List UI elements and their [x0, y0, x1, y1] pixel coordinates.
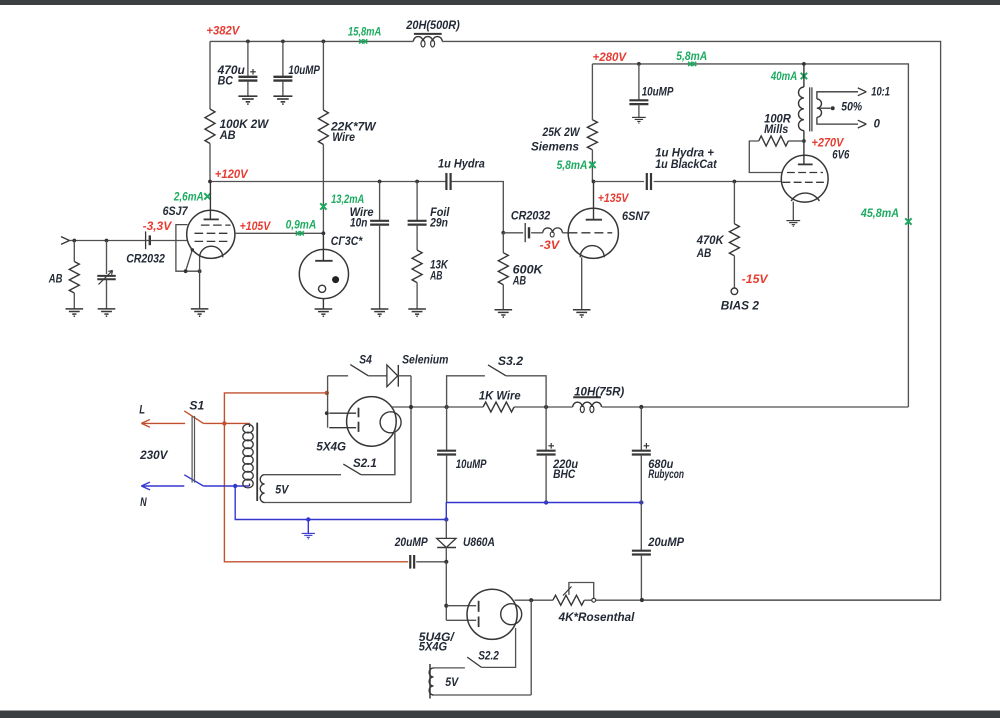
svg-text:BIAS 2: BIAS 2: [721, 301, 760, 313]
wire mains N: [141, 482, 184, 490]
current 15,8mA: [348, 26, 381, 43]
battery CR2032 input bias: [126, 231, 165, 265]
svg-text:5V: 5V: [445, 677, 459, 689]
current 45,8mA: [860, 208, 912, 225]
node blue gnd stem: [306, 517, 310, 521]
svg-text:-15V: -15V: [742, 274, 769, 286]
capacitor 220u BHC: [537, 407, 579, 502]
capacitor 10uMP filter1: [273, 41, 320, 96]
bottom border bar: [0, 711, 1000, 718]
resistor 100K 2W AB: [205, 41, 269, 181]
svg-text:5X4G: 5X4G: [316, 442, 346, 454]
switch S3.2: [447, 356, 546, 407]
node 280V-10uMP: [637, 62, 641, 66]
switch S1 pole L: [184, 411, 203, 424]
svg-text:10:1: 10:1: [871, 86, 890, 98]
wire 600K to 6SN7 grid: [503, 232, 568, 234]
capacitor 10uMP psu: [437, 407, 487, 502]
svg-text:40mA: 40mA: [770, 71, 797, 83]
svg-text:Wire: Wire: [332, 132, 355, 144]
node rectifier out: [529, 598, 533, 602]
wire 5U4G output: [515, 599, 553, 601]
wire mains L: [141, 420, 185, 428]
input arrow: [61, 237, 70, 241]
svg-text:Rubycon: Rubycon: [648, 469, 684, 481]
svg-text:10n: 10n: [350, 218, 367, 230]
svg-text:СГ3С*: СГ3С*: [331, 236, 363, 248]
current 5,8mA top: [676, 51, 707, 66]
node input-varcap: [105, 239, 109, 243]
tube 5X4G rectifier: [329, 397, 401, 447]
node blue 10uMP: [444, 517, 448, 521]
svg-text:+280V: +280V: [593, 52, 628, 64]
wire +120V rail: [210, 182, 503, 233]
ground СГ3С: [315, 309, 333, 316]
ground 6SN7 cathode: [573, 310, 591, 317]
wire U860A to 5U4G: [445, 562, 447, 621]
node 280V-OPT: [802, 62, 806, 66]
current 13,2mA: [320, 194, 364, 210]
svg-text:5,8mA: 5,8mA: [557, 160, 588, 172]
node 6SJ7 cath2: [198, 269, 202, 273]
wire 6SN7 cathode: [581, 257, 583, 309]
node N ground tap: [233, 484, 237, 488]
svg-text:10uMP: 10uMP: [456, 459, 487, 471]
wire 5X4G anode tie: [327, 376, 329, 428]
node +270V: [802, 139, 806, 143]
svg-text:1K Wire: 1K Wire: [479, 391, 521, 403]
terminal BIAS 2: [731, 288, 738, 295]
svg-text:230V: 230V: [139, 450, 169, 462]
tube 6SN7: [568, 182, 618, 259]
capacitor 20uMP right: [632, 503, 685, 601]
svg-text:10uMP: 10uMP: [642, 86, 674, 98]
ground input AB: [66, 309, 84, 316]
node red to 5X4G: [325, 391, 329, 395]
node 382V-470u: [246, 40, 250, 44]
switch S2.2: [434, 651, 500, 668]
tube 6V6: [781, 141, 828, 202]
wire input: [70, 240, 188, 242]
node L heater tap: [222, 421, 226, 425]
inductor 20H(500R): [405, 20, 460, 47]
node 382V-22K: [322, 40, 326, 44]
node screen-22K junction: [322, 231, 326, 235]
wire blue ground bus: [235, 486, 641, 520]
transformer 5V winding top: [260, 475, 411, 503]
node B+ selenium: [409, 405, 413, 409]
capacitor 470u BC: [217, 41, 258, 96]
resistor 1K Wire: [479, 391, 521, 413]
wire 6SJ7 grid return box: [176, 225, 200, 272]
transformer OPT primary: [799, 64, 812, 141]
inductor 10H(75R): [573, 386, 625, 412]
svg-text:6V6: 6V6: [832, 149, 850, 161]
svg-text:+135V: +135V: [598, 193, 630, 205]
wire selenium branch down: [410, 376, 412, 503]
svg-text:BC: BC: [218, 76, 234, 88]
wire 5X4G filament bottom: [394, 432, 396, 475]
wire +135V rail to 6V6 grid: [594, 181, 782, 183]
svg-text:1u Hydra: 1u Hydra: [438, 159, 485, 171]
svg-text:25K 2W: 25K 2W: [542, 127, 581, 139]
svg-text:BHC: BHC: [553, 469, 576, 481]
transformer 5V winding bottom: [429, 664, 531, 699]
svg-text:1u Hydra +: 1u Hydra +: [655, 148, 714, 160]
capacitor 10uMP 280V: [629, 64, 673, 117]
resistor 13K AB: [412, 250, 448, 309]
wire 5U4G anode leads: [446, 606, 476, 621]
svg-text:U860A: U860A: [463, 537, 495, 549]
svg-text:AB: AB: [48, 274, 62, 286]
svg-text:6SJ7: 6SJ7: [163, 206, 188, 218]
resistor 600K AB: [498, 233, 543, 310]
capacitor 1u Hydra: [438, 159, 485, 190]
wire 6SJ7 cathode to ground: [199, 257, 201, 308]
svg-text:0: 0: [874, 119, 881, 131]
svg-text:Siemens: Siemens: [531, 141, 579, 153]
wire 5U4G filament down: [482, 628, 516, 667]
node blue 220u: [544, 500, 548, 504]
switch S2.1: [343, 432, 395, 475]
svg-text:50%: 50%: [841, 101, 862, 113]
transformer OPT secondary: [817, 86, 890, 130]
diode U860A: [437, 520, 495, 562]
node U860A cap: [444, 560, 448, 564]
current 0,9mA: [286, 219, 317, 235]
svg-text:+120V: +120V: [215, 169, 249, 181]
capacitor 680u Rubycon: [632, 407, 684, 502]
svg-text:-3,3V: -3,3V: [143, 221, 173, 233]
svg-text:S1: S1: [189, 401, 204, 413]
svg-text:AB: AB: [512, 275, 526, 287]
ground 600K: [495, 310, 513, 317]
resistor 22K*7W Wire: [318, 41, 376, 233]
current 2,6mA: [173, 191, 211, 203]
svg-text:20uMP: 20uMP: [394, 537, 428, 549]
node 382V-10uMP: [281, 40, 285, 44]
svg-text:15,8mA: 15,8mA: [348, 26, 381, 38]
node input-AB: [72, 239, 76, 243]
node B+ 220u: [544, 405, 548, 409]
capacitor Foil 29n: [408, 182, 451, 251]
svg-text:470K: 470K: [696, 235, 724, 247]
node 120V-29n: [415, 180, 419, 184]
node 120V-100K: [208, 180, 212, 184]
current 40mA: [770, 71, 807, 83]
wire rectifier out to 5V return: [530, 600, 532, 695]
svg-text:L: L: [139, 404, 145, 416]
svg-text:Selenium: Selenium: [402, 355, 448, 367]
wire B+ raw rail: [392, 406, 909, 408]
svg-text:0,9mA: 0,9mA: [286, 219, 317, 231]
tube 5U4G rectifier: [467, 589, 522, 639]
ground 10uMP: [273, 96, 292, 104]
svg-text:1u BlackCat: 1u BlackCat: [655, 159, 718, 171]
ground 13K: [408, 309, 426, 316]
node 20uMP-600: [640, 598, 644, 602]
svg-text:AB: AB: [219, 130, 236, 142]
resistor AB grid leak: [48, 241, 79, 309]
node 120V-10n: [378, 180, 382, 184]
ground 10n: [371, 309, 389, 316]
node 6SJ7 cath1: [184, 269, 188, 273]
ground 470u: [238, 96, 257, 104]
svg-text:10H(75R): 10H(75R): [574, 386, 624, 398]
svg-text:N: N: [140, 497, 147, 509]
svg-text:29n: 29n: [429, 218, 448, 230]
wire 6SJ7 suppressor tie: [186, 248, 194, 271]
svg-text:CR2032: CR2032: [126, 253, 165, 265]
capacitor 20uMP heater coupling: [394, 537, 446, 569]
svg-text:-3V: -3V: [540, 240, 561, 252]
svg-text:5V: 5V: [275, 485, 289, 497]
node 6V6 grid: [733, 180, 737, 184]
resistor 100R Mills: [749, 113, 804, 172]
diode Selenium: [387, 355, 449, 387]
inductor grid bead 6SN7: [543, 228, 553, 233]
wire red heater feed: [224, 393, 408, 562]
transformer mains primary: [243, 423, 257, 501]
svg-text:AB: AB: [696, 248, 711, 260]
resistor 470K AB: [696, 182, 740, 289]
svg-text:6SN7: 6SN7: [622, 211, 650, 223]
svg-text:+270V: +270V: [812, 138, 845, 150]
top border bar: [0, 0, 1000, 5]
svg-text:20uMP: 20uMP: [647, 537, 684, 549]
svg-text:5,8mA: 5,8mA: [676, 51, 707, 63]
svg-text:10uMP: 10uMP: [288, 65, 320, 77]
svg-text:CR2032: CR2032: [511, 211, 551, 223]
svg-text:+382V: +382V: [206, 25, 240, 37]
ground 6V6 cathode: [786, 221, 800, 227]
svg-text:S2.1: S2.1: [353, 458, 377, 470]
capacitor Wire 10n: [350, 182, 390, 309]
wire +382V rail and outer B+ loop: [210, 41, 941, 600]
node 5U4G anode: [444, 604, 448, 608]
node blue 680u: [639, 500, 643, 504]
tube СГ3С voltage regulator: [299, 233, 348, 308]
svg-text:5X4G: 5X4G: [419, 642, 447, 654]
wire +280V rail: [592, 64, 908, 407]
battery CR2032 6SN7 bias: [511, 211, 551, 243]
rheostat 4K*Rosenthal: [553, 583, 941, 625]
svg-text:4K*Rosenthal: 4K*Rosenthal: [558, 612, 636, 624]
wire blue gnd stem: [307, 520, 309, 534]
svg-text:S4: S4: [359, 355, 372, 367]
node +135V: [592, 180, 596, 184]
switch S1 linkage: [191, 416, 193, 483]
wire N to transformer: [203, 485, 249, 487]
svg-text:Mills: Mills: [764, 124, 788, 136]
switch S1 pole N: [184, 475, 203, 486]
svg-text:+105V: +105V: [240, 221, 272, 233]
variable capacitor input: [97, 241, 116, 309]
node B+ 680u: [639, 405, 643, 409]
svg-text:13,2mA: 13,2mA: [331, 194, 364, 206]
node 600K junction: [501, 231, 505, 235]
tube 6SJ7: [187, 182, 235, 259]
node 5X4G anode: [325, 411, 329, 415]
svg-text:20H(500R): 20H(500R): [405, 20, 460, 32]
svg-text:AB: AB: [429, 270, 442, 282]
svg-text:45,8mA: 45,8mA: [860, 208, 899, 220]
resistor 25K 2W Siemens: [531, 64, 597, 182]
switch S4: [328, 355, 387, 376]
wire 6V6 cathode: [792, 202, 794, 221]
svg-text:2,6mA: 2,6mA: [173, 191, 204, 203]
ground 6SJ7 cathode: [191, 309, 209, 316]
ground mains blue: [302, 533, 315, 538]
wire L to transformer: [203, 422, 249, 424]
capacitor 1u Hydra + 1u BlackCat: [647, 148, 718, 190]
svg-text:S3.2: S3.2: [498, 356, 524, 368]
node B+ 10uMP: [445, 405, 449, 409]
current 5,8mA 6SN7: [557, 160, 596, 172]
wire +105V screen: [235, 232, 324, 234]
svg-text:S2.2: S2.2: [478, 651, 499, 663]
ground 10uMP 280V: [632, 117, 646, 123]
ground varcap: [98, 309, 116, 316]
